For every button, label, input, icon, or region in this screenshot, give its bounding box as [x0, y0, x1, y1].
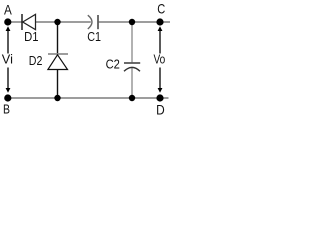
Vi upper arrow (points up at A) [6, 26, 11, 53]
wire top rail middle segment (D1 to C1) [36, 21, 91, 23]
junction bottom C2 [129, 95, 135, 101]
capacitor C2 [124, 63, 140, 71]
svg-text:Vo: Vo [154, 52, 166, 67]
svg-text:D: D [156, 102, 165, 118]
svg-text:Vi: Vi [2, 52, 13, 67]
Vi lower arrow (points down at B) [6, 68, 11, 93]
node B [4, 94, 11, 101]
wire top rail left segment (A to D1) [8, 21, 22, 23]
Vo upper arrow (points up at C) [158, 26, 163, 53]
junction top C2 [129, 19, 135, 25]
junction top D2 [54, 19, 60, 25]
svg-text:A: A [4, 2, 12, 18]
node C [156, 18, 163, 25]
junction bottom D2 [54, 95, 60, 101]
svg-text:C1: C1 [87, 29, 101, 44]
node D [156, 94, 163, 101]
svg-text:C: C [157, 1, 165, 17]
svg-text:C2: C2 [106, 57, 120, 72]
diode D1 [22, 14, 36, 30]
wire C2 top lead [131, 22, 133, 63]
wire C2 bottom lead [131, 68, 133, 98]
Vo lower arrow (points down at D) [158, 68, 163, 93]
svg-text:D1: D1 [24, 29, 38, 44]
wire top rail right segment (C1 to right stub past C) [99, 21, 170, 23]
diode D2 [48, 54, 68, 70]
svg-text:D2: D2 [29, 53, 43, 68]
wire D2 top lead [57, 22, 59, 54]
node A [4, 18, 11, 25]
svg-text:B: B [3, 101, 10, 116]
capacitor C1 [88, 15, 98, 29]
wire D2 bottom lead [57, 70, 59, 99]
wire bottom rail (B to right stub past D) [8, 97, 169, 99]
